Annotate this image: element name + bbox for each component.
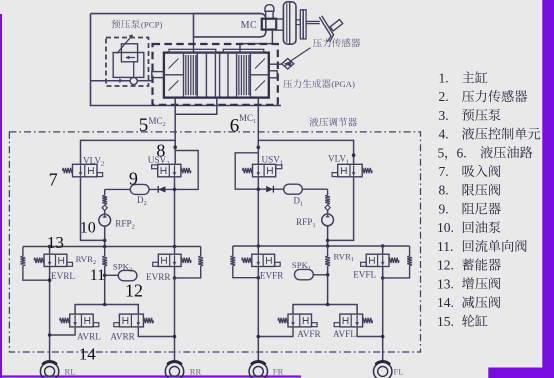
variable displacement arrow — [117, 37, 131, 54]
junction accumulator node — [103, 274, 107, 278]
svg-text:AVRL: AVRL — [77, 331, 101, 341]
junction accumulator node right — [326, 273, 330, 277]
valve block internal arrows — [169, 59, 179, 69]
junction MC1 — [257, 146, 261, 150]
svg-text:8.: 8. — [439, 183, 449, 198]
svg-text:10: 10 — [80, 220, 96, 237]
svg-text:13.: 13. — [437, 276, 454, 291]
label 3 pre-charge pump PCP — [111, 20, 120, 29]
brake pedal arm — [319, 17, 331, 42]
brake pedal pad — [330, 19, 343, 30]
svg-text:1.: 1. — [439, 70, 449, 85]
svg-text:(PCP): (PCP) — [141, 20, 163, 30]
wire MC1 rail to VLV1 — [258, 140, 353, 164]
svg-text:5: 5 — [438, 145, 445, 160]
junction EVRL bypass return — [48, 278, 52, 282]
svg-text:6.: 6. — [457, 145, 467, 160]
svg-text:14: 14 — [79, 344, 97, 363]
wire AVFL to wheel line FL — [357, 327, 383, 337]
junction return rail right — [326, 303, 330, 307]
return check valve RVR1 — [327, 246, 329, 256]
svg-text:EVRL: EVRL — [51, 271, 75, 281]
svg-text:RL: RL — [65, 367, 76, 377]
check valve in USV1 bypass — [266, 186, 273, 192]
svg-text:FL: FL — [394, 367, 404, 377]
wire USV1 output down — [257, 177, 259, 246]
junction EVFL bypass return — [381, 276, 385, 280]
wire return rail left circuit — [75, 305, 138, 315]
label hydraulic modulator — [310, 118, 319, 127]
solenoid hatching left — [185, 55, 187, 95]
wire to accumulator SPK2 — [105, 274, 119, 276]
wheel cylinder FL — [374, 362, 392, 378]
valve AVFR pressure-reduction — [288, 314, 312, 327]
svg-text:AVRR: AVRR — [110, 331, 135, 341]
svg-text:10.: 10. — [437, 220, 454, 235]
junction EVFR bypass return — [257, 276, 261, 280]
wire damper D1 to pump RFP1 — [302, 188, 327, 190]
label 2 pressure sensor — [313, 39, 322, 48]
brake pedal rod — [306, 20, 320, 22]
valve block right port stub — [269, 71, 277, 78]
wire VLV2 down line — [81, 177, 105, 241]
wire MC2 main line down to USV2 — [174, 140, 176, 164]
booster push-rod plates — [296, 20, 300, 25]
valve VLV2 suction — [73, 164, 98, 177]
wire reservoir supply line (box top edge) — [91, 13, 261, 15]
pressure generator valve block — [164, 53, 269, 98]
junction USV2 bypass — [173, 188, 177, 192]
wheel cylinder FR — [249, 362, 267, 378]
valve block left port stub — [152, 72, 164, 78]
pressure generator PGA dashed enclosure — [153, 44, 278, 105]
pump drain circle — [130, 77, 137, 84]
master cylinder outlet port block — [262, 19, 276, 30]
pre-charge pump body — [113, 53, 144, 78]
wire PGA merge stub — [175, 98, 217, 115]
wheel cylinder RL — [40, 362, 58, 378]
valve USV1 switch — [253, 164, 276, 177]
wire pump RFP1 outlet to rail — [327, 226, 329, 246]
svg-text:FR: FR — [273, 367, 284, 377]
junction USV1 bypass — [257, 187, 261, 191]
valve block top bars — [169, 49, 216, 52]
junction VLV1 suction join — [326, 239, 330, 243]
wire MC port to PGA (inner pipe) — [240, 30, 272, 53]
return check valve RVR2 — [104, 247, 106, 257]
junction rail pump RFP1 — [326, 244, 330, 248]
valve AVFL pressure-reduction — [340, 314, 363, 327]
svg-text:AVFR: AVFR — [297, 329, 321, 339]
wire AVRR to wheel line RR — [138, 327, 174, 337]
vacuum booster — [276, 19, 283, 30]
junction rail EVRR — [173, 245, 177, 249]
svg-text:EVFR: EVFR — [260, 271, 284, 281]
damper D2 — [130, 184, 149, 194]
wire AVFR to wheel line FR — [258, 327, 293, 337]
valve EVFL pressure-increase — [382, 246, 384, 254]
wire AVRL to wheel line RL — [50, 327, 76, 335]
check valve in USV2 bypass — [159, 186, 166, 192]
svg-text:3.: 3. — [439, 108, 449, 123]
wire VLV1 down line — [328, 177, 354, 241]
wire USV2 output down — [174, 177, 176, 247]
wire MC body to PGA (outer pipe) — [193, 37, 195, 53]
bypass check around EVRR — [200, 247, 202, 257]
damper D1 — [284, 184, 303, 194]
svg-text:(PGA): (PGA) — [332, 79, 356, 89]
wire USV1 bypass loop — [235, 153, 284, 189]
junction EVRR bypass return — [173, 276, 177, 280]
pump internal arrow — [126, 57, 135, 59]
wire suction line to PGA — [91, 80, 131, 82]
accumulator SPK1 — [295, 269, 314, 279]
svg-text:11.: 11. — [437, 239, 453, 254]
svg-text:MC: MC — [241, 20, 258, 31]
svg-text:12: 12 — [125, 281, 143, 301]
junction VLV1 top — [352, 153, 356, 157]
hydraulic modulator dash-dot enclosure — [9, 132, 420, 352]
junction rail EVRL — [48, 245, 52, 249]
svg-text:9.: 9. — [439, 201, 449, 216]
svg-text:11: 11 — [90, 267, 105, 284]
svg-text:2.: 2. — [439, 89, 449, 104]
wire pump RFP2 outlet to rail — [104, 226, 106, 246]
svg-text:15.: 15. — [437, 314, 454, 329]
valve VLV1 suction — [338, 164, 363, 177]
valve block inner partitions — [183, 54, 185, 97]
return pump RFP1 — [322, 214, 334, 226]
wire to accumulator SPK1 — [313, 274, 327, 276]
label 4 pressure generator PGA — [283, 79, 292, 88]
svg-text:EVFL: EVFL — [353, 270, 376, 280]
wire EVRL to wheel RL — [49, 267, 51, 362]
return pump RFP2 — [99, 214, 111, 226]
junction MC2 — [173, 146, 177, 150]
valve USV2 switch — [158, 164, 181, 177]
wire EV feed rail right circuit — [233, 245, 410, 247]
svg-text:7.: 7. — [439, 164, 449, 179]
svg-text:14.: 14. — [437, 295, 454, 310]
svg-text:8: 8 — [156, 141, 165, 161]
wire damper D2 to pump RFP2 — [105, 188, 131, 190]
pre-charge pump PCP dashed enclosure — [106, 38, 149, 87]
svg-text:4.: 4. — [439, 127, 449, 142]
svg-text:5: 5 — [139, 115, 149, 136]
wheel cylinder RR — [165, 362, 183, 378]
wire EVRR to wheel RR — [174, 267, 176, 362]
svg-text:EVRR: EVRR — [146, 272, 171, 282]
wire MC1 main line down to USV1 — [257, 140, 259, 164]
pressure sensor leader line — [290, 48, 310, 62]
wire EVFR to wheel FR — [257, 267, 259, 362]
valve EVRR pressure-increase — [174, 247, 176, 255]
solenoid hatching right — [238, 55, 240, 95]
valve EVFR pressure-increase — [257, 246, 259, 254]
wire USV2 bypass loop — [149, 151, 198, 190]
wire EV feed rail left circuit — [23, 246, 201, 248]
wire PGA right output MC1 — [257, 98, 259, 141]
svg-text:7: 7 — [49, 170, 58, 190]
svg-text:6: 6 — [230, 115, 240, 136]
svg-text:AVFL: AVFL — [333, 329, 356, 339]
wire EVFL to wheel FL — [382, 267, 384, 362]
relief check above pump RFP2 — [104, 189, 106, 195]
svg-text:12.: 12. — [437, 258, 454, 273]
master cylinder U1 body — [194, 14, 266, 37]
reservoir on master cylinder — [265, 5, 274, 12]
valve AVRR pressure-reduction — [119, 314, 143, 327]
relief check above pump RFP1 — [327, 189, 329, 195]
junction rail EVFR — [257, 244, 261, 248]
svg-text:9: 9 — [129, 168, 138, 188]
bypass check around EVRL — [22, 247, 24, 257]
valve AVRL pressure-reduction — [70, 314, 94, 327]
bypass check around EVFR — [232, 246, 234, 256]
wire MC2 rail to VLV2 — [81, 140, 176, 164]
pressure sensor 2 symbol — [282, 59, 294, 69]
accumulator SPK2 — [118, 270, 137, 280]
hydraulic control unit box outline — [91, 14, 282, 106]
bypass check around EVFL — [409, 246, 411, 256]
junction VLV2 suction join — [103, 239, 107, 243]
wire PGA left output MC2 — [174, 98, 176, 141]
valve EVRL pressure-increase — [49, 247, 51, 255]
wire return rail right circuit — [293, 305, 357, 315]
junction rail EVFL — [381, 244, 385, 248]
wire to pressure sensor — [269, 63, 282, 65]
junction rail pump — [103, 245, 107, 249]
svg-text:RR: RR — [190, 367, 202, 377]
junction return rail — [103, 303, 107, 307]
